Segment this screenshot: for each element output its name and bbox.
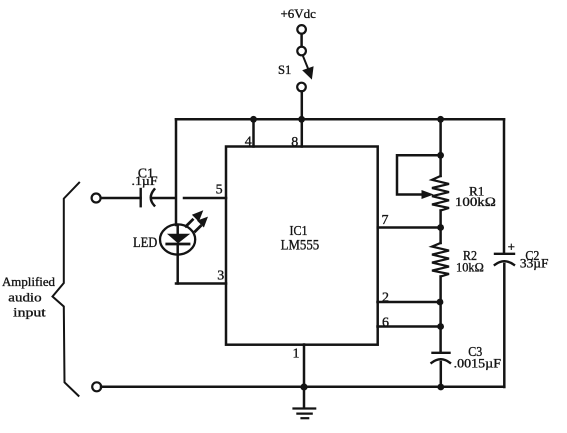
input terminal circle bottom [92, 382, 101, 391]
input terminal circle top [92, 194, 101, 203]
wire pin 5 stub [184, 197, 226, 200]
junction dot pin4 branch [250, 116, 257, 123]
svg-text:.1µF: .1µF [132, 174, 158, 188]
ground bar 1 [294, 407, 316, 409]
ground bar 2 [297, 413, 311, 415]
svg-text:7: 7 [382, 213, 389, 228]
junction dot pin 6 node [437, 323, 444, 330]
wire R1 wiper loop [397, 155, 441, 194]
svg-text:2: 2 [382, 290, 389, 305]
resistor R2 zigzag [432, 243, 449, 277]
LED light arrow 2 head [197, 217, 208, 228]
svg-text:audio: audio [8, 290, 41, 305]
svg-text:33µF: 33µF [520, 256, 549, 271]
svg-text:8: 8 [291, 135, 298, 150]
svg-text:100kΩ: 100kΩ [455, 194, 496, 209]
capacitor C3 curved plate [432, 359, 451, 363]
switch S1 pole circle [297, 47, 306, 56]
svg-text:LM555: LM555 [281, 238, 320, 254]
brace for input [53, 183, 80, 396]
wire pin 3 [176, 282, 226, 285]
junction dot C3 bottom [437, 384, 444, 391]
junction dot pin 2 node [437, 299, 444, 306]
svg-text:+: + [508, 239, 515, 254]
wire C2 to bottom bus [503, 264, 506, 387]
LED cathode bar [167, 243, 189, 246]
op-amp IC1 LM555 body [226, 147, 378, 345]
svg-text:3: 3 [217, 268, 224, 283]
switch S1 lever [303, 56, 308, 68]
LED light arrow 1 shaft [186, 220, 193, 227]
LED light arrow 1 head [192, 210, 203, 222]
wire pin 1 stub [303, 345, 306, 388]
R1 wiper arrowhead [422, 190, 434, 199]
LED triangle [167, 234, 190, 244]
wire C3 to bottom bus [440, 362, 443, 387]
wire left branch from top bus down to LED [175, 119, 178, 225]
capacitor C3 top plate [433, 352, 450, 354]
wire bottom bus [101, 386, 504, 389]
wire pin 7 [378, 226, 441, 229]
junction dot pin1 ground node [300, 383, 307, 390]
terminal circle top of S1 [297, 25, 306, 34]
wire top bus [176, 118, 504, 121]
svg-text:input: input [13, 304, 46, 319]
wire pin 6 [378, 325, 441, 328]
junction dot pin8 branch [298, 116, 305, 123]
switch S1 throw circle [297, 83, 306, 92]
LED cathode lead [176, 246, 179, 284]
junction dot R1 top loop [437, 152, 444, 159]
LED anode lead inside [176, 225, 179, 235]
wire R2 bottom through pin2 and pin6 nodes to C3 [439, 277, 442, 353]
svg-text:10kΩ: 10kΩ [456, 260, 484, 275]
svg-text:5: 5 [216, 182, 223, 197]
svg-text:6: 6 [382, 316, 389, 331]
wire pin7 node to R2 [439, 228, 442, 244]
wire R1 branch from bus [439, 119, 442, 176]
wire R1 bottom to pin7 node [439, 211, 442, 228]
wire input to C1 [101, 197, 141, 200]
switch S1 lever arrowhead [302, 66, 313, 79]
wire pin 2 [378, 301, 441, 304]
wire pin 4 stub [252, 119, 255, 146]
svg-text:Amplified: Amplified [2, 274, 55, 289]
ground bar 3 [302, 417, 309, 419]
svg-text:1: 1 [293, 346, 300, 361]
junction dot R1 branch [437, 116, 444, 123]
capacitor C2 top plate [495, 253, 514, 255]
wire C1 to LED branch [153, 197, 174, 200]
svg-text:LED: LED [133, 235, 157, 251]
capacitor C1 right curved plate [151, 189, 155, 205]
resistor R1 zigzag [432, 176, 449, 211]
wire between supply terminal and S1 pole [300, 34, 303, 47]
capacitor C1 left plate [139, 189, 141, 206]
LED circle [160, 224, 195, 254]
svg-text:+6Vdc: +6Vdc [281, 6, 317, 21]
LED light arrow 2 shaft [195, 226, 200, 231]
ground stem [303, 387, 306, 408]
wire S1 throw down to top bus and pin 8 [301, 91, 304, 146]
wire right bus down to C2 [503, 119, 506, 254]
junction dot pin 7 node [437, 224, 444, 231]
capacitor C2 curved plate [495, 261, 514, 265]
svg-text:S1: S1 [278, 62, 291, 77]
svg-text:.0015µF: .0015µF [454, 357, 501, 371]
